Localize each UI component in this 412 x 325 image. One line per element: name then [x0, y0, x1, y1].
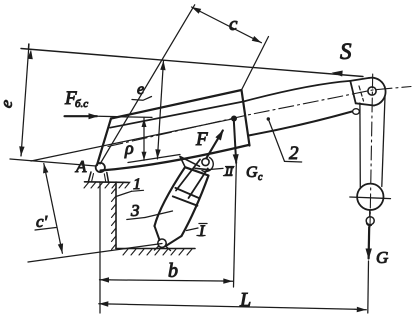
arrowhead rho top: [142, 119, 147, 128]
wire: hoist cable S from winch to pulley: [21, 49, 363, 77]
arrowhead e small bottom: [155, 149, 160, 159]
arrowhead b right: [223, 278, 233, 283]
boom inner section end cap: [350, 81, 355, 103]
arrowhead Fbc: [89, 113, 99, 119]
svg-text:e: e: [0, 97, 17, 110]
svg-text:I: I: [198, 223, 205, 240]
hook: [369, 210, 371, 217]
force F arrow: [207, 131, 223, 159]
hook block sheave: [357, 184, 383, 210]
pivot A circle: [96, 163, 105, 172]
cylinder bottom pivot: [158, 239, 166, 247]
cylinder rod: [176, 160, 208, 199]
force Gc arrow: [234, 120, 236, 163]
boom axis dash-dot centerline: [108, 87, 411, 147]
dimension c line: [192, 7, 262, 43]
arrowhead e big bottom: [19, 146, 24, 156]
arrowhead e small top: [160, 61, 165, 71]
boom head block: [350, 78, 369, 81]
wire: cable fall left: [359, 103, 361, 188]
force G arrow: [368, 227, 371, 259]
svg-text:c: c: [229, 14, 238, 35]
cylinder pointed end: [155, 226, 182, 246]
svg-text:S: S: [340, 39, 352, 64]
wire: cable fall right: [382, 97, 385, 187]
vertical dash-dot centerline at pulley: [370, 74, 373, 227]
boom inner section 2 bottom edge: [249, 112, 353, 136]
label 2: [267, 117, 270, 120]
ground under A: [85, 181, 129, 184]
extension line from Gc down to dimension b: [234, 164, 237, 287]
svg-text:б.с: б.с: [75, 98, 88, 110]
rod clevis bracket under boom: [180, 157, 209, 170]
node: load attachment dot: [231, 116, 237, 122]
base frame vertical hatched wall: [115, 182, 117, 249]
head lug: [353, 109, 360, 115]
arrowhead c-prime bottom: [58, 243, 63, 253]
label II roman: [208, 168, 223, 169]
arrowhead c left: [192, 7, 202, 14]
boom inner section 2 top edge: [110, 81, 350, 128]
dimension b extension left: [99, 182, 101, 313]
dimension L line: [99, 303, 110, 305]
svg-text:3: 3: [130, 201, 140, 220]
boom base section: [111, 90, 250, 146]
Fb.c action line: [99, 116, 153, 117]
arrowhead L right: [357, 307, 367, 312]
svg-text:c: c: [258, 172, 263, 183]
svg-text:2: 2: [289, 143, 299, 164]
dimension b line: [100, 279, 111, 281]
dimension c' line: [44, 164, 63, 254]
extension line from e bottom to boom: [31, 119, 233, 161]
arrowhead L left: [99, 301, 109, 306]
head hidden line: [359, 86, 364, 101]
pulley pin: [368, 87, 376, 95]
svg-text:F: F: [195, 129, 208, 150]
dimension L extension right: [367, 261, 370, 313]
dimension e big line: [21, 44, 29, 156]
inner datum line under rho arrows: [128, 155, 180, 163]
arrowhead G: [366, 249, 372, 260]
extension line L2 from boom corner to c dimension: [242, 37, 269, 91]
svg-text:b: b: [168, 260, 178, 282]
label I roman: [187, 228, 199, 231]
boom left edge to pivot A: [97, 119, 111, 166]
arrowhead rho bottom: [142, 152, 147, 161]
svg-text:G: G: [376, 248, 388, 267]
cylinder piston band: [173, 188, 199, 206]
pulley housing arc: [369, 78, 385, 106]
extension line through A to left: [10, 159, 96, 166]
dimension e small line: [157, 61, 163, 159]
svg-text:A: A: [75, 157, 87, 176]
boom bottom edge: [101, 145, 249, 171]
svg-text:L: L: [239, 289, 251, 311]
cylinder top pivot: [202, 158, 209, 165]
arrowhead e big top: [27, 50, 32, 60]
extension line L1 from A to c dimension: [100, 5, 195, 164]
svg-text:G: G: [246, 164, 258, 181]
arrowhead c-prime top: [43, 164, 48, 174]
arrowhead c right: [252, 36, 262, 43]
hydraulic cylinder barrel: [155, 167, 209, 236]
arrowhead b left: [100, 277, 110, 282]
ground under cylinder: [116, 248, 195, 250]
extension line through cylinder pivot: [28, 244, 162, 263]
dimension rho line: [143, 118, 145, 161]
arrowhead S: [332, 71, 343, 77]
pivot A triangle: [88, 172, 108, 182]
arrowhead F: [215, 130, 223, 141]
arrowhead Gc: [233, 154, 239, 164]
force Fb.c arrow: [65, 115, 98, 117]
